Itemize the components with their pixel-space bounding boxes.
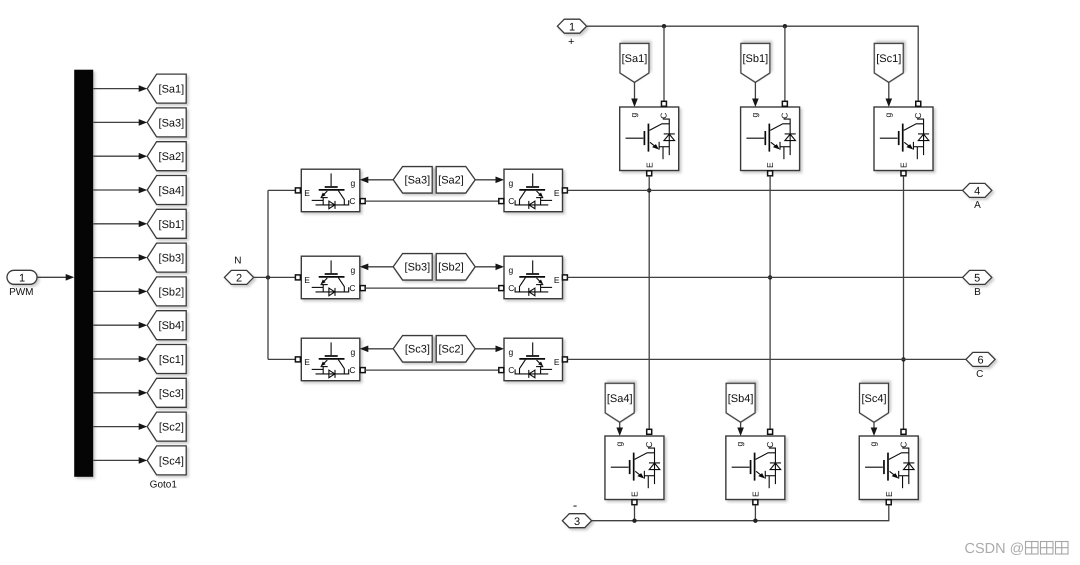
IGBT block Qb4 (bottom, phase B) xyxy=(726,436,785,500)
port square E of Qa3 xyxy=(295,188,300,193)
goto tag [Sc4] xyxy=(147,446,186,475)
wire + bus drop to Qa1 C xyxy=(663,26,665,101)
inport 2 N xyxy=(224,270,253,284)
port square E of Qa1 xyxy=(647,171,652,176)
port square C of Qb3 xyxy=(360,286,365,291)
port square C of Qc1 xyxy=(916,101,921,106)
svg-text:A: A xyxy=(974,200,981,211)
wire C of Qb3 to C of Qb2 xyxy=(365,287,499,289)
IGBT block Qc3 (left, row C) xyxy=(301,338,360,381)
IGBT block Qa3 (left, row A) xyxy=(301,169,360,212)
svg-text:[Sb3]: [Sb3] xyxy=(159,253,185,265)
svg-text:[Sa2]: [Sa2] xyxy=(159,151,185,163)
svg-text:[Sc4]: [Sc4] xyxy=(861,393,886,405)
from tag [Sa4] xyxy=(605,383,634,422)
goto tag [Sa3] xyxy=(147,108,186,137)
port square C of Qc2 xyxy=(499,368,504,373)
wire + bus xyxy=(587,26,919,101)
port square E of Qb4 xyxy=(753,500,758,505)
wire [Sc2] to g of Qc2 xyxy=(475,346,504,353)
wire demux to goto tag [Sa2] xyxy=(93,153,147,160)
wire demux to goto tag [Sa4] xyxy=(93,187,147,194)
port square C of Qc4 xyxy=(901,429,906,434)
svg-text:3: 3 xyxy=(574,516,580,528)
wire [Sb3] to g of Qb3 xyxy=(360,264,393,271)
from tag [Sa1] xyxy=(620,43,649,82)
svg-text:2: 2 xyxy=(236,273,242,285)
svg-text:[Sa4]: [Sa4] xyxy=(607,393,633,405)
svg-text:[Sa1]: [Sa1] xyxy=(622,53,648,65)
IGBT block Qb1 (top, phase B) xyxy=(741,107,800,171)
port square E of Qb2 xyxy=(562,275,567,280)
svg-text:[Sc1]: [Sc1] xyxy=(876,53,901,65)
svg-text:[Sb4]: [Sb4] xyxy=(159,320,185,332)
IGBT block Qa4 (bottom, phase A) xyxy=(605,436,664,500)
svg-text:-: - xyxy=(573,498,577,513)
wire demux to goto tag [Sa1] xyxy=(93,85,147,92)
wire Qb4 E drop xyxy=(754,505,756,521)
svg-text:[Sa2]: [Sa2] xyxy=(438,175,464,187)
port square C of Qa2 xyxy=(499,199,504,204)
wire C of Qc3 to C of Qc2 xyxy=(365,369,499,371)
goto tag [Sc1] xyxy=(147,345,186,374)
outport 5 (phase B) xyxy=(963,270,992,284)
wire phase B bus xyxy=(567,276,962,278)
wire [Sb4] to g of Qb4 xyxy=(737,422,744,436)
inport 3 - (DC negative) xyxy=(562,514,591,528)
port square C of Qa4 xyxy=(647,429,652,434)
wire demux to goto tag [Sc4] xyxy=(93,457,147,464)
wire [Sa2] to g of Qa2 xyxy=(475,177,504,184)
junction phase B xyxy=(768,275,772,279)
svg-text:1: 1 xyxy=(19,272,25,284)
wire [Sc4] to g of Qc4 xyxy=(871,422,878,436)
svg-text:+: + xyxy=(568,36,574,48)
wire phase A bus xyxy=(567,189,962,191)
inport 1 PWM xyxy=(7,270,37,284)
goto tag [Sb1] xyxy=(147,209,186,238)
goto tag [Sb2] xyxy=(147,277,186,306)
svg-text:5: 5 xyxy=(974,273,980,285)
wire demux to goto tag [Sb1] xyxy=(93,221,147,228)
outport 4 (phase A) xyxy=(963,183,992,197)
wire phase C bus xyxy=(567,358,966,360)
outport 6 (phase C) xyxy=(966,352,995,366)
wire N bus to row1 E xyxy=(268,189,295,191)
svg-text:[Sc1]: [Sc1] xyxy=(159,354,184,366)
junction N bus xyxy=(266,275,270,279)
wire N bus vertical xyxy=(267,190,269,359)
wire [Sa4] to g of Qa4 xyxy=(616,422,623,436)
wire [Sc1] to g of Qc1 xyxy=(886,82,893,107)
wire demux to goto tag [Sb4] xyxy=(93,322,147,329)
junction phase A xyxy=(647,188,651,192)
from tag [Sb3] xyxy=(393,254,432,281)
goto tag [Sb4] xyxy=(147,311,186,340)
svg-text:N: N xyxy=(234,256,241,267)
from tag [Sc3] xyxy=(393,336,432,363)
wire demux to goto tag [Sb2] xyxy=(93,288,147,295)
port square E of Qc1 xyxy=(901,171,906,176)
port square E of Qa4 xyxy=(632,500,637,505)
junction + bus at Qb1 C xyxy=(783,24,787,28)
port square E of Qb1 xyxy=(768,171,773,176)
port square E of Qc2 xyxy=(562,357,567,362)
goto tag [Sc3] xyxy=(147,378,186,407)
wire + bus drop to Qb1 C xyxy=(784,26,786,101)
svg-text:[Sa1]: [Sa1] xyxy=(159,84,185,96)
inport 1 + (DC positive) xyxy=(557,19,586,33)
wire - bus xyxy=(592,505,889,521)
wire [Sa1] to g of Qa1 xyxy=(631,82,638,107)
port square C of Qa1 xyxy=(661,101,666,106)
svg-text:1: 1 xyxy=(569,21,575,33)
wire demux to goto tag [Sc3] xyxy=(93,390,147,397)
port square C of Qb2 xyxy=(499,286,504,291)
wire N stub xyxy=(254,276,296,278)
svg-text:PWM: PWM xyxy=(9,287,33,298)
wire phase A leg (Qa1 E to Qa4 C) xyxy=(648,176,650,429)
svg-text:[Sb2]: [Sb2] xyxy=(159,286,185,298)
wire PWM to demux bar xyxy=(37,274,74,281)
wire phase C leg (Qc1 E to Qc4 C) xyxy=(903,176,905,429)
demux bus bar (black) xyxy=(74,70,93,477)
watermark CSDN xyxy=(965,541,1069,557)
from tag [Sa3] xyxy=(393,167,432,194)
from tag [Sc2] xyxy=(436,336,475,363)
svg-text:[Sb1]: [Sb1] xyxy=(159,219,185,231)
junction phase C xyxy=(901,357,905,361)
port square E of Qc4 xyxy=(886,500,891,505)
goto tag [Sa2] xyxy=(147,142,186,171)
port square C of Qa3 xyxy=(360,199,365,204)
svg-text:4: 4 xyxy=(974,186,980,198)
from tag [Sb1] xyxy=(741,43,770,82)
goto tag [Sb3] xyxy=(147,243,186,272)
svg-text:Goto1: Goto1 xyxy=(150,480,178,491)
svg-text:[Sb4]: [Sb4] xyxy=(728,393,754,405)
wire [Sa3] to g of Qa3 xyxy=(360,177,393,184)
IGBT block Qb3 (left, row B) xyxy=(301,256,360,299)
port square E of Qa2 xyxy=(562,188,567,193)
IGBT block Qa1 (top, phase A) xyxy=(620,107,679,171)
IGBT block Qc4 (bottom, phase C) xyxy=(859,436,918,500)
goto tag [Sa1] xyxy=(147,74,186,103)
from tag [Sc4] xyxy=(860,383,889,422)
port square C of Qb1 xyxy=(782,101,787,106)
IGBT block Qc2 (right, row C) xyxy=(504,338,563,381)
wire phase B leg (Qb1 E to Qb4 C) xyxy=(769,176,771,429)
svg-text:[Sb2]: [Sb2] xyxy=(438,262,464,274)
svg-text:[Sa4]: [Sa4] xyxy=(159,185,185,197)
goto tag [Sa4] xyxy=(147,176,186,205)
wire Qa4 E drop xyxy=(634,505,636,521)
IGBT block Qa2 (right, row A) xyxy=(504,169,563,212)
svg-text:[Sb3]: [Sb3] xyxy=(405,262,431,274)
wire demux to goto tag [Sb3] xyxy=(93,254,147,261)
IGBT block Qc1 (top, phase C) xyxy=(874,107,933,171)
svg-text:[Sa3]: [Sa3] xyxy=(405,175,431,187)
svg-text:[Sc2]: [Sc2] xyxy=(438,344,463,356)
IGBT block Qb2 (right, row B) xyxy=(504,256,563,299)
svg-text:[Sa3]: [Sa3] xyxy=(159,117,185,129)
wire demux to goto tag [Sc1] xyxy=(93,356,147,363)
junction - bus at Qb4 E xyxy=(753,519,757,523)
junction - bus at Qa4 E xyxy=(632,519,636,523)
svg-text:[Sc3]: [Sc3] xyxy=(405,344,430,356)
port square C of Qb4 xyxy=(768,429,773,434)
goto tag [Sc2] xyxy=(147,412,186,441)
svg-text:[Sc4]: [Sc4] xyxy=(159,455,184,467)
from tag [Sb2] xyxy=(436,254,475,281)
svg-text:[Sc2]: [Sc2] xyxy=(159,422,184,434)
from tag [Sa2] xyxy=(436,167,475,194)
wire demux to goto tag [Sc2] xyxy=(93,423,147,430)
svg-text:CSDN @: CSDN @ xyxy=(965,541,1025,557)
svg-text:[Sc3]: [Sc3] xyxy=(159,388,184,400)
svg-text:B: B xyxy=(974,287,981,298)
junction + bus at Qa1 C xyxy=(662,24,666,28)
from tag [Sb4] xyxy=(726,383,755,422)
svg-text:6: 6 xyxy=(977,355,983,367)
port square C of Qc3 xyxy=(360,368,365,373)
wire C of Qa3 to C of Qa2 xyxy=(365,200,499,202)
wire [Sc3] to g of Qc3 xyxy=(360,346,393,353)
port square E of Qc3 xyxy=(295,357,300,362)
svg-text:[Sb1]: [Sb1] xyxy=(743,53,769,65)
from tag [Sc1] xyxy=(874,43,903,82)
svg-text:C: C xyxy=(976,369,983,380)
wire N bus to row3 E xyxy=(268,358,295,360)
port square E of Qb3 xyxy=(295,275,300,280)
wire [Sb2] to g of Qb2 xyxy=(475,264,504,271)
wire [Sb1] to g of Qb1 xyxy=(752,82,759,107)
wire demux to goto tag [Sa3] xyxy=(93,119,147,126)
